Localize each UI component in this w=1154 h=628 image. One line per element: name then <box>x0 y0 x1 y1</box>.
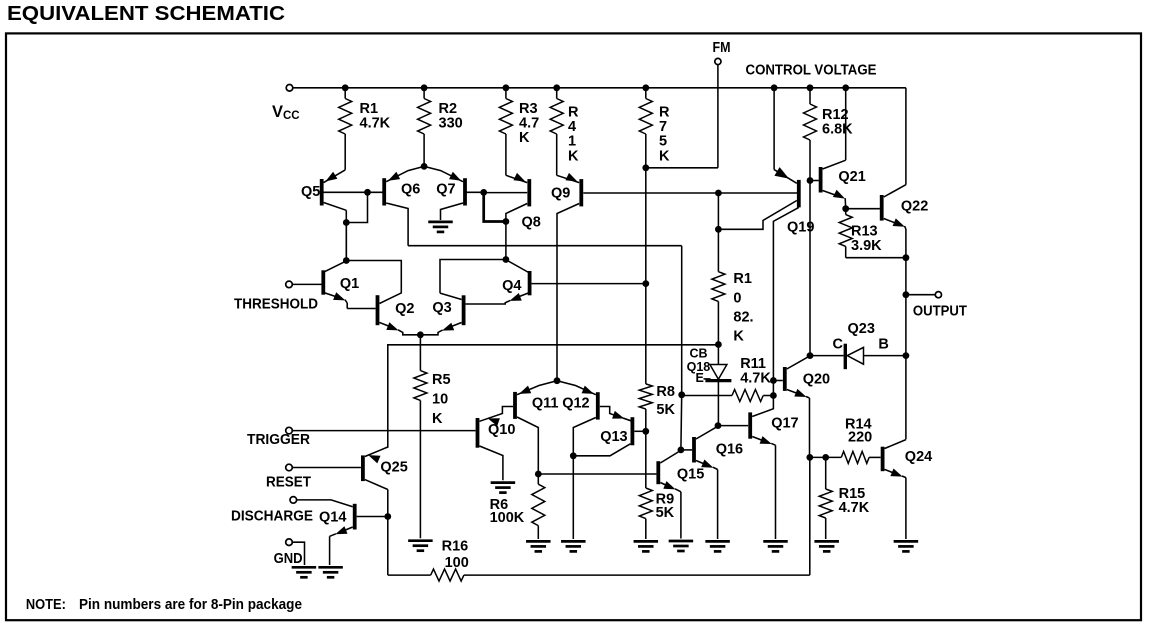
svg-text:B: B <box>878 337 888 353</box>
node Q5 base tie <box>364 189 371 196</box>
TRIGGER label <box>247 432 310 448</box>
node R2 bottom <box>421 163 428 170</box>
svg-text:0: 0 <box>733 290 741 306</box>
transistor Q16 <box>681 427 718 539</box>
node Q19 base line <box>715 190 722 197</box>
node Q1-Q2 collectors <box>343 257 350 264</box>
wire Q5 diode tie <box>346 192 367 222</box>
Q22 label <box>901 199 928 215</box>
svg-text:EQUIVALENT SCHEMATIC: EQUIVALENT SCHEMATIC <box>7 2 285 25</box>
transistor Q13 <box>573 407 646 456</box>
svg-text:R5: R5 <box>432 372 451 388</box>
Q7 label <box>436 182 455 198</box>
R7 value label <box>659 105 670 165</box>
svg-text:4.7K: 4.7K <box>360 116 391 132</box>
transistor Q4 <box>466 260 646 304</box>
svg-text:Q23: Q23 <box>848 321 875 337</box>
wire emitters to R5 <box>419 335 421 371</box>
wire GND lead <box>292 542 304 565</box>
resistor R3 <box>499 88 512 176</box>
node Q12-Q13 collectors <box>570 452 577 459</box>
resistor R8 <box>639 384 652 409</box>
node rail-R7 <box>642 84 649 91</box>
resistor R1 <box>339 88 352 170</box>
svg-text:R8: R8 <box>656 384 675 400</box>
wire bottom right <box>464 457 810 575</box>
node R13 bottom <box>903 254 910 261</box>
svg-text:DISCHARGE: DISCHARGE <box>231 509 313 525</box>
svg-text:K: K <box>733 329 744 345</box>
transistor Q7 <box>424 166 484 205</box>
ground Q15 <box>669 541 694 551</box>
transistor Q23 (diode) <box>810 344 906 370</box>
wire Q8 collector <box>506 204 527 260</box>
resistor R10 <box>712 272 725 345</box>
svg-text:CC: CC <box>283 110 300 122</box>
transistor Q12 <box>557 381 598 456</box>
wire Q6 collector <box>386 203 408 246</box>
svg-text:Q24: Q24 <box>905 449 932 465</box>
R6 value label <box>490 497 525 526</box>
R4 value label <box>568 105 579 165</box>
svg-text:Q8: Q8 <box>522 215 541 231</box>
svg-text:100: 100 <box>445 555 469 571</box>
Q20 label <box>803 372 830 388</box>
svg-text:R16: R16 <box>442 539 469 555</box>
Q18 labels <box>687 347 711 386</box>
resistor R6 <box>532 474 545 539</box>
svg-text:NOTE:: NOTE: <box>26 597 66 613</box>
svg-text:R1: R1 <box>733 271 752 287</box>
svg-text:K: K <box>432 411 443 427</box>
ground Q17 <box>763 541 788 551</box>
TRIGGER terminal <box>286 427 293 434</box>
wire Q9 collector <box>557 204 579 381</box>
THRESHOLD terminal <box>286 281 293 288</box>
Q23 label <box>848 321 875 337</box>
svg-text:Q17: Q17 <box>771 416 798 432</box>
wire R14 lead <box>810 456 842 458</box>
node Q23-output <box>903 352 910 359</box>
svg-text:Q11: Q11 <box>532 396 559 412</box>
svg-text:4.7K: 4.7K <box>740 371 771 387</box>
resistor R14 <box>841 451 880 463</box>
R16 value label <box>442 539 469 572</box>
wire Q2 collector link <box>346 261 401 304</box>
svg-text:Q25: Q25 <box>380 460 407 476</box>
node rail-R1 <box>342 84 349 91</box>
Q2 label <box>395 301 414 317</box>
wire Q25 collector <box>387 490 389 576</box>
node Q8-Q4 collector <box>503 256 510 263</box>
svg-text:Q13: Q13 <box>600 429 627 445</box>
transistor Q18 (diode) <box>705 345 731 426</box>
R13 value label <box>851 224 882 255</box>
transistor Q19 <box>774 88 799 208</box>
Q11 label <box>532 396 559 412</box>
svg-text:CONTROL VOLTAGE: CONTROL VOLTAGE <box>746 63 877 79</box>
svg-text:3.9K: 3.9K <box>851 238 882 254</box>
ground Q24 <box>894 541 919 551</box>
svg-text:Q2: Q2 <box>395 301 414 317</box>
svg-text:Pin numbers are for 8-Pin pack: Pin numbers are for 8-Pin package <box>79 597 302 613</box>
node R15 top <box>822 454 829 461</box>
R8 value label <box>656 384 675 418</box>
node Q8 collector tie <box>503 218 510 225</box>
node rail-R2 <box>421 84 428 91</box>
node rail-Q19 <box>771 84 778 91</box>
title <box>7 2 285 25</box>
resistor R4 <box>550 88 563 176</box>
ground Q12-Q13 <box>561 541 586 551</box>
Q23 B label <box>878 337 888 353</box>
Q6 label <box>401 182 420 198</box>
OUTPUT label <box>913 304 967 320</box>
transistor Q11 <box>515 381 557 474</box>
svg-text:330: 330 <box>439 116 463 132</box>
VCC label <box>272 103 300 122</box>
ground R5 <box>408 541 433 551</box>
wire VCC rail <box>293 87 906 89</box>
svg-text:220: 220 <box>848 430 872 446</box>
transistor Q2 <box>378 295 421 335</box>
wire Q12c to ground <box>572 456 574 539</box>
node R11 left <box>678 391 685 398</box>
node R10 bottom <box>715 341 722 348</box>
ground R6 <box>526 541 551 551</box>
ground Q10 <box>491 483 516 493</box>
R5 value label <box>432 372 451 427</box>
transistor Q22 <box>846 88 906 258</box>
resistor R12 <box>804 88 817 181</box>
THRESHOLD label <box>234 297 318 313</box>
svg-text:Q3: Q3 <box>432 300 451 316</box>
node R8-Q13 base <box>642 428 649 435</box>
transistor Q8 <box>484 173 530 207</box>
node Q14 base <box>384 513 391 520</box>
node FM-R7 <box>642 164 649 171</box>
wire output vertical <box>905 258 907 440</box>
wire Q19 collector 2 <box>773 207 798 380</box>
svg-text:5K: 5K <box>656 402 675 418</box>
wire long mid line <box>388 345 719 448</box>
node Q4 base-divider <box>642 280 649 287</box>
svg-text:4: 4 <box>568 119 576 135</box>
wire Q5 collector <box>324 203 347 261</box>
note text <box>26 597 302 613</box>
wire Q5c to Q1c <box>345 223 347 261</box>
resistor R11 <box>682 390 774 402</box>
svg-text:10: 10 <box>432 392 448 408</box>
node rail-R12 <box>807 84 814 91</box>
node Q11c-R6 <box>535 471 542 478</box>
wire to OUTPUT terminal <box>906 294 935 296</box>
transistor Q25 <box>292 447 388 490</box>
Q13 label <box>600 429 627 445</box>
transistor Q15 <box>656 450 681 538</box>
svg-text:Q4: Q4 <box>502 278 521 294</box>
transistor Q21 <box>810 88 846 209</box>
node Q19 c1 tie <box>715 226 722 233</box>
node Q2-Q3 emitters <box>417 331 424 338</box>
FM label <box>713 40 731 56</box>
svg-text:K: K <box>568 148 579 164</box>
OUTPUT terminal <box>935 292 941 298</box>
svg-text:K: K <box>519 130 530 146</box>
svg-text:OUTPUT: OUTPUT <box>913 304 967 320</box>
Q3 label <box>432 300 451 316</box>
node output tap <box>903 291 910 298</box>
svg-text:E: E <box>696 371 704 385</box>
node Q20 base <box>770 377 777 384</box>
resistor R15 <box>819 457 832 539</box>
svg-text:Q22: Q22 <box>901 199 928 215</box>
wire Q19c2-R11 tie <box>772 381 774 396</box>
wire bottom left <box>388 574 431 576</box>
svg-text:100K: 100K <box>490 510 525 526</box>
resistor R13 <box>839 209 906 258</box>
svg-text:V: V <box>272 103 283 121</box>
node rail-Q21 <box>842 84 849 91</box>
svg-text:7: 7 <box>659 119 667 135</box>
node Q18-Q17 base <box>715 422 722 429</box>
svg-text:Q21: Q21 <box>838 169 865 185</box>
node Q20e-R14 <box>806 454 813 461</box>
svg-text:5K: 5K <box>656 505 675 521</box>
wire Q8 diode tie <box>484 192 506 221</box>
node R12-Q21 base <box>807 177 814 184</box>
transistor Q17 <box>718 396 776 540</box>
svg-text:Q20: Q20 <box>803 372 830 388</box>
wire FF vertical low <box>680 395 683 450</box>
RESET label <box>266 475 311 491</box>
wire Q18 chain upper <box>717 193 719 272</box>
wire Q9 base line <box>583 192 797 194</box>
Q17 label <box>771 416 798 432</box>
node Q20 collector <box>807 352 814 359</box>
Q10 label <box>488 422 515 438</box>
svg-text:1: 1 <box>568 134 576 150</box>
R15 value label <box>839 486 870 516</box>
svg-text:4.7K: 4.7K <box>839 500 870 516</box>
wire divider low <box>645 409 647 488</box>
wire Q6c cross line <box>408 245 682 247</box>
wire FM to divider <box>646 167 718 169</box>
transistor Q20 <box>773 356 810 458</box>
svg-text:Q7: Q7 <box>436 182 455 198</box>
resistor R2 <box>418 88 431 167</box>
R10 value label <box>733 271 753 345</box>
svg-text:RESET: RESET <box>266 475 311 491</box>
DISCHARGE label <box>231 509 313 525</box>
DISCHARGE terminal <box>290 497 297 504</box>
Q12 label <box>562 396 589 412</box>
wire Q7 collector <box>441 203 464 220</box>
node Q15c-Q16b <box>678 447 685 454</box>
wire comparator out <box>538 473 656 475</box>
FM terminal <box>715 58 721 64</box>
Q21 label <box>838 169 865 185</box>
Q1 label <box>340 276 359 292</box>
svg-text:Q1: Q1 <box>340 276 359 292</box>
wire R12 down to Q23 node <box>809 181 811 356</box>
Q16 label <box>716 442 743 458</box>
node Q5 collector tie <box>343 219 350 226</box>
svg-text:THRESHOLD: THRESHOLD <box>234 297 318 313</box>
Q4 label <box>502 278 521 294</box>
svg-text:Q12: Q12 <box>562 396 589 412</box>
transistor Q1 <box>292 261 375 309</box>
wire FM vertical <box>717 65 719 168</box>
transistor Q5 <box>322 170 385 206</box>
svg-text:82.: 82. <box>733 310 753 326</box>
svg-text:6.8K: 6.8K <box>822 122 853 138</box>
Q25 label <box>380 460 407 476</box>
svg-text:Q16: Q16 <box>716 442 743 458</box>
Q8 label <box>522 215 541 231</box>
transistor Q10 <box>478 407 514 481</box>
svg-text:TRIGGER: TRIGGER <box>247 432 310 448</box>
GND label <box>274 551 303 567</box>
R3 value label <box>519 101 539 146</box>
R1 value label <box>360 101 391 132</box>
R12 value label <box>822 107 853 138</box>
wire Q3 collector <box>440 260 506 294</box>
transistor Q3 <box>420 293 463 335</box>
R11 value label <box>740 356 771 387</box>
Q24 label <box>905 449 932 465</box>
node Q21 emitter <box>842 205 849 212</box>
svg-text:Q14: Q14 <box>319 510 346 526</box>
R9 value label <box>656 492 675 522</box>
Q14 label <box>319 510 346 526</box>
wire TRIGGER line <box>292 430 475 432</box>
node rail-R4 <box>553 84 560 91</box>
CONTROL VOLTAGE label <box>746 63 877 79</box>
wire FF vertical <box>681 246 683 395</box>
ground Q7 <box>428 222 453 232</box>
ground Q14 <box>318 567 343 577</box>
svg-text:C: C <box>833 337 844 353</box>
Q19 label <box>787 220 814 236</box>
transistor Q14 <box>297 500 388 565</box>
wire Q19 collector 1 <box>718 201 796 230</box>
svg-text:Q9: Q9 <box>551 186 570 202</box>
Q5 label <box>301 184 320 200</box>
RESET terminal <box>286 464 293 471</box>
ground R9 <box>634 541 659 551</box>
node R11 right <box>770 392 777 399</box>
R14 value label <box>845 417 872 446</box>
resistor R16 <box>431 569 464 581</box>
ground GND terminal <box>292 567 317 577</box>
svg-text:K: K <box>659 148 670 164</box>
Q23 C label <box>833 337 844 353</box>
svg-text:CB: CB <box>690 347 708 361</box>
wire divider mid <box>645 168 647 384</box>
node Q7-Q8 base <box>480 189 487 196</box>
resistor R9 <box>639 488 652 539</box>
svg-text:5: 5 <box>659 134 667 150</box>
node Q11-Q12 emitters <box>554 377 561 384</box>
svg-text:FM: FM <box>713 40 731 56</box>
Q9 label <box>551 186 570 202</box>
svg-text:Q10: Q10 <box>488 422 515 438</box>
resistor R7 <box>639 88 652 168</box>
transistor Q6 <box>384 166 424 205</box>
resistor R5 <box>414 371 427 539</box>
VCC terminal <box>286 85 293 92</box>
Q15 label <box>677 467 704 483</box>
node rail-R3 <box>503 84 510 91</box>
svg-text:Q5: Q5 <box>301 184 320 200</box>
ground Q16 <box>705 541 730 551</box>
GND terminal <box>286 539 293 546</box>
svg-text:Q15: Q15 <box>677 467 704 483</box>
svg-text:GND: GND <box>274 551 303 567</box>
svg-text:Q6: Q6 <box>401 182 420 198</box>
transistor Q24 <box>883 440 906 539</box>
ground R15 <box>814 541 839 551</box>
R2 value label <box>439 101 463 132</box>
transistor Q9 <box>557 173 582 207</box>
